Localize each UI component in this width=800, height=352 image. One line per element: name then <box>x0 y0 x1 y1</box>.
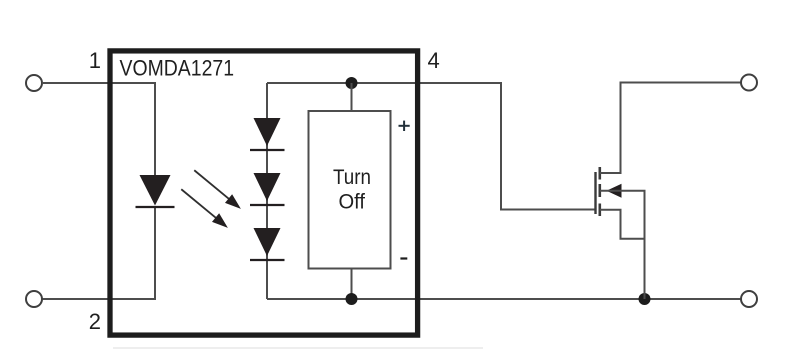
wire: body to source net <box>600 191 645 299</box>
svg-text:Turn: Turn <box>333 165 371 189</box>
junction node (top of Turn Off) <box>346 77 358 89</box>
label - <box>400 257 407 259</box>
svg-text:4: 4 <box>428 48 440 73</box>
junction node (bottom of Turn Off) <box>346 293 358 305</box>
photodiode PD2 <box>250 173 285 205</box>
body diode arrow <box>607 184 622 198</box>
photodiode stack branch wire <box>266 83 268 299</box>
package box VOMDA1271 <box>110 51 418 335</box>
light emission arrow 1 <box>191 166 245 213</box>
photodiode PD1 <box>250 118 285 150</box>
label + <box>399 121 410 131</box>
bottom rail wire <box>267 298 742 300</box>
wire: LED cathode branch to T2 <box>42 207 155 299</box>
MOSFET Q1 gate line <box>594 172 596 214</box>
terminal T1 (top left) <box>26 75 42 91</box>
terminal T2 (bottom left) <box>26 291 42 307</box>
svg-text:Off: Off <box>339 190 366 214</box>
photodiode PD3 <box>250 228 285 260</box>
svg-text:1: 1 <box>89 48 101 73</box>
svg-text:2: 2 <box>89 309 101 334</box>
junction node (MOSFET source at bottom rail) <box>639 293 651 305</box>
wire: dot to Turn Off + terminal <box>351 83 353 112</box>
light emission arrow 2 <box>178 185 232 232</box>
LED D1 <box>136 175 175 207</box>
svg-text:VOMDA1271: VOMDA1271 <box>120 56 235 81</box>
MOSFET Q1 channel segment (source) <box>598 204 601 217</box>
terminal T4 (bottom right) <box>741 291 757 307</box>
MOSFET Q1 channel segment (drain) <box>598 167 601 180</box>
wire: photostack top rail to pin 4 and MOSFET gate <box>267 83 595 210</box>
wire: Turn Off - terminal to bottom rail <box>351 269 353 300</box>
wire: T1 to LED anode branch <box>42 83 155 175</box>
turn-off circuit block <box>309 111 391 269</box>
MOSFET Q1 channel segment (body) <box>598 184 601 197</box>
wire: drain to top rail <box>600 83 742 174</box>
terminal T3 (top right) <box>741 75 757 91</box>
wire: source jog <box>600 210 645 239</box>
faint baseline artifact <box>113 347 483 349</box>
